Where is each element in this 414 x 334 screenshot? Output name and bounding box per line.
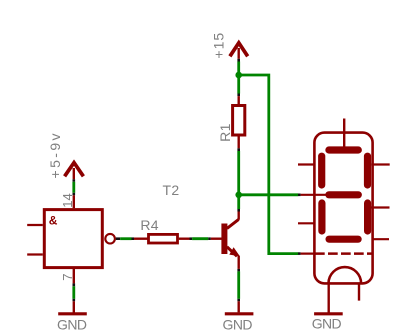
svg-text:GND: GND [57, 316, 87, 332]
svg-text:7: 7 [60, 273, 75, 280]
svg-text:T2: T2 [163, 182, 180, 198]
svg-text:GND: GND [312, 316, 342, 332]
svg-text:&: & [49, 213, 58, 227]
svg-text:R1: R1 [217, 123, 233, 142]
svg-text:R4: R4 [140, 217, 159, 233]
svg-text:GND: GND [223, 316, 253, 332]
svg-text:+5-9v: +5-9v [47, 131, 63, 178]
svg-text:+15: +15 [210, 32, 226, 59]
svg-text:14: 14 [60, 193, 75, 207]
